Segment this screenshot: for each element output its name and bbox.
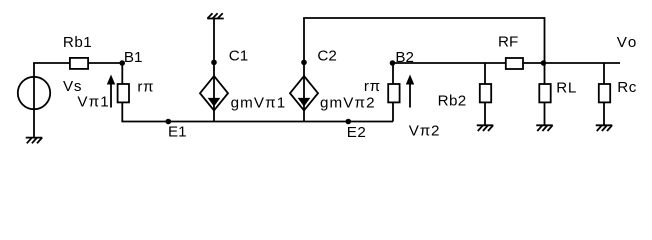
svg-text:rπ: rπ bbox=[364, 78, 381, 95]
svg-text:Vo: Vo bbox=[617, 34, 638, 51]
svg-text:C1: C1 bbox=[229, 48, 248, 65]
svg-text:C2: C2 bbox=[317, 48, 336, 65]
svg-text:E2: E2 bbox=[347, 124, 367, 141]
svg-text:Rc: Rc bbox=[617, 79, 637, 96]
svg-text:B2: B2 bbox=[395, 49, 414, 66]
svg-text:Rb2: Rb2 bbox=[438, 93, 467, 110]
svg-text:gmVπ1: gmVπ1 bbox=[231, 94, 287, 111]
svg-text:gmVπ2: gmVπ2 bbox=[320, 94, 376, 111]
svg-text:Vs: Vs bbox=[63, 78, 82, 95]
svg-text:B1: B1 bbox=[124, 49, 143, 66]
svg-text:Rb1: Rb1 bbox=[63, 34, 92, 51]
svg-text:rπ: rπ bbox=[137, 78, 154, 95]
svg-text:Vπ2: Vπ2 bbox=[409, 123, 440, 140]
svg-text:E1: E1 bbox=[168, 124, 187, 141]
svg-text:Vπ1: Vπ1 bbox=[77, 94, 109, 111]
svg-text:RL: RL bbox=[556, 79, 577, 96]
svg-text:RF: RF bbox=[498, 34, 518, 51]
